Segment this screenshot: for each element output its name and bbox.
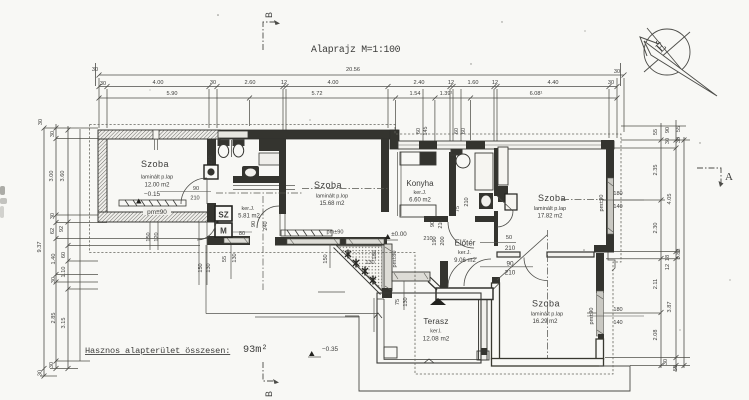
svg-text:ker.J.: ker.J. <box>458 250 471 256</box>
door arc hall divider <box>448 222 474 248</box>
svg-text:20.56: 20.56 <box>346 67 360 73</box>
svg-text:130: 130 <box>232 253 238 262</box>
door arc middle room from hall <box>257 206 279 228</box>
left witness extension lines <box>40 128 207 376</box>
svg-text:8.82: 8.82 <box>676 249 682 260</box>
svg-text:120: 120 <box>154 232 160 241</box>
svg-text:3.15: 3.15 <box>61 318 67 329</box>
svg-text:210: 210 <box>438 219 444 228</box>
partition bath2 / right room with door gap <box>494 148 498 196</box>
svg-text:30: 30 <box>38 119 44 125</box>
bath south wall / counter <box>233 176 286 183</box>
svg-text:210: 210 <box>208 155 214 164</box>
svg-text:50: 50 <box>506 235 512 241</box>
svg-text:180: 180 <box>372 250 378 259</box>
svg-text:90: 90 <box>665 127 671 133</box>
lower room west wall double-line <box>492 283 500 359</box>
section marker B top <box>263 12 280 50</box>
svg-text:210: 210 <box>190 196 199 202</box>
radiator middle room <box>281 230 332 236</box>
radiator left room <box>119 200 186 206</box>
svg-text:2.40: 2.40 <box>414 80 425 86</box>
bottom summary text <box>85 345 267 356</box>
door arc to right room <box>497 196 513 227</box>
svg-text:2.11: 2.11 <box>653 279 659 289</box>
laundry south wall with window <box>207 236 250 245</box>
svg-text:pm±80: pm±80 <box>392 250 398 267</box>
bath2 basin <box>479 193 493 209</box>
svg-text:130: 130 <box>365 260 374 266</box>
level -0.35 <box>308 346 339 357</box>
svg-text:pm±90: pm±90 <box>326 230 343 236</box>
room label Szoba 15.68 <box>314 180 348 207</box>
svg-text:±0.00: ±0.00 <box>391 231 407 238</box>
north wall left wing dark part <box>220 130 398 139</box>
bath washbasin <box>242 166 259 179</box>
svg-text:150: 150 <box>323 254 329 263</box>
bath2 WC <box>451 149 470 168</box>
scan noise specks <box>150 14 731 330</box>
middle room east wall <box>381 139 389 212</box>
kitchen east wall partition <box>449 152 456 216</box>
lower room south wall double-line <box>492 359 604 367</box>
terrace east edge band <box>479 288 488 360</box>
svg-text:30: 30 <box>663 359 669 365</box>
svg-text:5.72: 5.72 <box>312 91 323 97</box>
svg-text:2.30: 2.30 <box>653 223 659 234</box>
svg-text:180: 180 <box>613 307 622 313</box>
svg-text:3.60: 3.60 <box>60 171 66 182</box>
bath NE shaft blocks <box>259 139 284 151</box>
kitchen west boundary lines <box>397 152 399 216</box>
room label Elöter <box>454 239 476 265</box>
svg-text:Szoba: Szoba <box>532 299 560 309</box>
right dim labels <box>653 126 682 371</box>
svg-text:60: 60 <box>61 252 67 258</box>
svg-text:12: 12 <box>281 80 287 86</box>
svg-text:90: 90 <box>251 221 257 227</box>
svg-text:1.40: 1.40 <box>51 254 57 265</box>
room label Szoba 17.82 <box>534 193 566 220</box>
svg-text:6.60 m2: 6.60 m2 <box>409 198 431 204</box>
walkway double line <box>206 314 377 318</box>
section marker A right <box>697 168 733 187</box>
svg-text:16.29 m2: 16.29 m2 <box>532 319 558 325</box>
svg-text:ker.l.: ker.l. <box>430 329 441 335</box>
lower room east wall upper dark with window <box>596 253 604 293</box>
kitchen counter <box>400 152 436 217</box>
entrance west jamb <box>440 261 448 289</box>
svg-text:12.00 m2: 12.00 m2 <box>144 183 170 189</box>
north compass <box>640 28 717 96</box>
svg-text:30: 30 <box>614 69 620 75</box>
svg-text:150: 150 <box>146 232 152 241</box>
svg-text:pm≡90: pm≡90 <box>147 209 167 216</box>
svg-text:−0.35: −0.35 <box>322 346 339 353</box>
svg-text:1.60: 1.60 <box>468 80 479 86</box>
west wall hatched <box>98 130 107 222</box>
svg-text:30: 30 <box>38 370 44 376</box>
hall south divider with door gap <box>424 216 448 222</box>
SZ box <box>215 206 232 221</box>
svg-text:4.40: 4.40 <box>548 80 559 86</box>
svg-text:2.08: 2.08 <box>653 330 659 341</box>
svg-text:30: 30 <box>100 81 106 87</box>
svg-text:2.60: 2.60 <box>245 80 256 86</box>
level marks <box>385 231 407 240</box>
kitchen step mini labels <box>416 127 467 136</box>
door arc left room <box>181 178 207 204</box>
svg-text:12: 12 <box>665 264 671 270</box>
svg-text:93m²: 93m² <box>243 345 267 356</box>
corner block <box>382 288 392 298</box>
svg-text:55: 55 <box>222 256 228 262</box>
svg-text:3.87: 3.87 <box>667 302 673 313</box>
svg-text:30: 30 <box>50 131 56 137</box>
top witness extension lines <box>99 78 624 148</box>
svg-text:75: 75 <box>395 299 401 305</box>
svg-text:210: 210 <box>505 270 516 277</box>
right room south wall partition with door gap <box>497 252 520 257</box>
west wall hatched <box>98 130 615 366</box>
top dim labels <box>92 67 620 97</box>
svg-text:5.81 m2: 5.81 m2 <box>238 214 260 220</box>
svg-text:140: 140 <box>613 204 622 210</box>
bottom plot outline <box>345 316 630 391</box>
svg-text:9.06 m2: 9.06 m2 <box>454 258 476 264</box>
section traces dash-dot <box>216 189 604 291</box>
right dimension chains <box>659 120 687 372</box>
vertical window east of triangle <box>384 244 392 291</box>
svg-text:2.85: 2.85 <box>51 313 57 324</box>
svg-text:1.10: 1.10 <box>61 267 67 278</box>
right room wardrobe <box>498 147 517 210</box>
svg-text:55: 55 <box>653 129 659 135</box>
svg-text:6.08¹: 6.08¹ <box>530 91 543 97</box>
svg-text:12: 12 <box>448 80 454 86</box>
svg-text:−0.15: −0.15 <box>144 191 161 198</box>
svg-text:30: 30 <box>665 138 671 144</box>
entry arrow triangle <box>430 298 446 305</box>
svg-text:laminált p.lap: laminált p.lap <box>141 175 173 181</box>
svg-text:Hasznos alapterület összesen:: Hasznos alapterület összesen: <box>85 346 230 356</box>
door to lower room: diagonal leaf, arc, jamb line <box>480 230 548 358</box>
svg-text:Szoba: Szoba <box>538 193 566 203</box>
svg-text:200: 200 <box>440 236 446 245</box>
WC 1 <box>218 140 229 158</box>
top dimension chain row1 overall 20.56 <box>96 63 627 101</box>
north wall jog at kitchen <box>390 130 399 149</box>
svg-text:Előtér: Előtér <box>455 239 476 248</box>
left dim labels <box>37 119 67 376</box>
section marker B bottom <box>263 362 279 397</box>
room label Szoba 16.29 <box>531 299 563 326</box>
svg-text:Szoba: Szoba <box>141 159 169 169</box>
SE corner connector of right room <box>594 245 614 253</box>
svg-text:90: 90 <box>430 221 436 227</box>
svg-text:B: B <box>264 12 274 18</box>
svg-text:B: B <box>264 391 274 397</box>
svg-text:4.05: 4.05 <box>667 194 673 205</box>
svg-text:12: 12 <box>492 80 498 86</box>
svg-text:9.37: 9.37 <box>37 242 43 253</box>
svg-text:60: 60 <box>461 128 467 134</box>
WC 2 <box>232 140 245 157</box>
svg-text:30: 30 <box>210 80 216 86</box>
svg-text:140: 140 <box>613 320 622 326</box>
top dimension chain row2 <box>99 86 617 88</box>
svg-text:60: 60 <box>454 128 460 134</box>
svg-text:SZ: SZ <box>218 211 228 220</box>
entrance south wall double-line <box>436 288 493 300</box>
room label Szoba 12.00 <box>136 159 173 216</box>
svg-text:30: 30 <box>92 67 98 73</box>
svg-text:1.39¹: 1.39¹ <box>440 91 453 97</box>
svg-text:ker.J.: ker.J. <box>414 190 427 196</box>
M box <box>215 223 232 237</box>
small door dims <box>160 186 644 326</box>
flue tick lines <box>154 139 156 150</box>
svg-text:62: 62 <box>50 228 56 234</box>
door arc laundry <box>197 221 216 240</box>
svg-text:240: 240 <box>263 221 269 230</box>
right witness extension lines <box>587 126 690 366</box>
entrance zone: diagonal corner window wall <box>334 245 384 295</box>
north wall right part: window band with piers <box>398 141 614 149</box>
svg-text:Terasz: Terasz <box>423 317 448 326</box>
svg-text:15.68 m2: 15.68 m2 <box>319 201 345 207</box>
svg-text:12.08 m2: 12.08 m2 <box>423 336 450 343</box>
bath2 cupboard <box>475 153 493 190</box>
horizontal window band entrance <box>392 272 430 281</box>
south wall of left room hatched <box>98 212 218 222</box>
svg-text:90: 90 <box>506 261 514 268</box>
svg-text:2.35: 2.35 <box>653 165 659 176</box>
svg-text:M: M <box>220 227 227 236</box>
svg-text:4.00: 4.00 <box>328 80 339 86</box>
laundry label <box>238 206 260 220</box>
svg-text:190: 190 <box>432 236 438 245</box>
east wall of bath/laundry zone <box>279 139 286 214</box>
svg-text:30: 30 <box>49 362 55 368</box>
svg-text:laminált p.lap: laminált p.lap <box>534 206 566 212</box>
Terasz outline <box>374 293 489 363</box>
left dimension chains <box>42 124 71 379</box>
top dimension chain row3 <box>99 97 617 99</box>
eaves dashed outline <box>90 125 622 375</box>
svg-text:laminált p.lop: laminált p.lop <box>316 194 348 200</box>
stipple triangle planted corner <box>337 246 382 290</box>
svg-text:30: 30 <box>608 80 614 86</box>
svg-text:210: 210 <box>505 245 516 252</box>
scan smudge left edge <box>0 186 7 218</box>
svg-text:A: A <box>725 171 733 183</box>
svg-text:Konyha: Konyha <box>406 179 434 188</box>
interior wall left room / bath with door gap <box>207 139 216 177</box>
svg-text:pm±90: pm±90 <box>599 194 605 211</box>
svg-text:210: 210 <box>464 197 470 206</box>
svg-text:30: 30 <box>50 213 56 219</box>
svg-text:92: 92 <box>59 226 65 232</box>
room label Terasz <box>423 317 450 343</box>
north wall left wing hatched part <box>98 130 220 139</box>
right room east wall with window <box>606 140 614 252</box>
svg-text:ker.J.: ker.J. <box>242 206 255 212</box>
shower corner <box>204 165 218 179</box>
svg-text:laminált p.lap: laminált p.lap <box>531 312 563 318</box>
svg-text:4.00: 4.00 <box>153 80 164 86</box>
svg-text:18: 18 <box>665 255 671 261</box>
svg-text:180: 180 <box>613 191 622 197</box>
chimney break in north wall <box>153 130 159 139</box>
room label Konyha <box>406 179 434 204</box>
svg-text:Alaprajz M=1:100: Alaprajz M=1:100 <box>311 44 401 55</box>
svg-text:90: 90 <box>193 186 199 192</box>
rotated small dims <box>146 155 605 324</box>
title Alaprajz M=1:100 <box>311 44 401 55</box>
svg-text:17.82 m2: 17.82 m2 <box>537 214 563 220</box>
entrance door arcs <box>448 258 491 287</box>
svg-text:60: 60 <box>416 128 422 134</box>
svg-text:5.90: 5.90 <box>167 91 178 97</box>
bathroom north window <box>218 131 248 138</box>
svg-text:3.00: 3.00 <box>49 171 55 182</box>
misc witness lines center <box>150 222 404 332</box>
svg-text:75: 75 <box>455 206 461 212</box>
svg-text:pm±90: pm±90 <box>589 307 595 324</box>
plants in corner <box>345 250 376 285</box>
svg-text:1.54: 1.54 <box>410 91 421 97</box>
svg-text:55: 55 <box>676 126 682 132</box>
south wall middle room with windows pm90 <box>275 237 387 246</box>
